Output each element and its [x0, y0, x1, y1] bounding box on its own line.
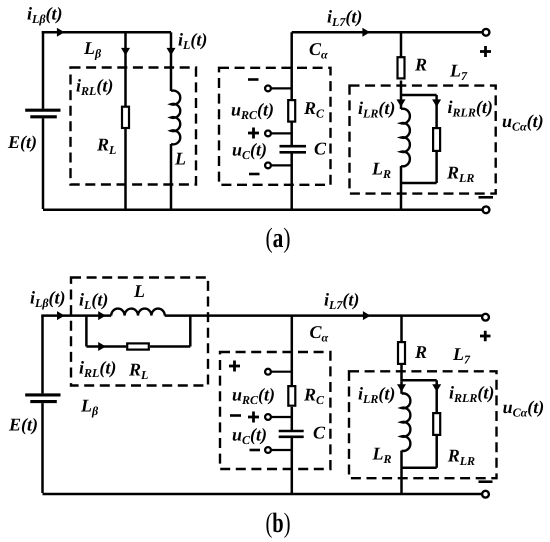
svg-text:E(t): E(t) — [7, 132, 37, 152]
svg-text:C: C — [313, 423, 326, 443]
svg-text:R: R — [414, 55, 427, 75]
svg-text:(b): (b) — [266, 508, 291, 539]
svg-text:uC(t): uC(t) — [232, 425, 267, 448]
svg-text:iL(t): iL(t) — [79, 290, 108, 313]
svg-text:E(t): E(t) — [8, 415, 38, 435]
svg-text:uC(t): uC(t) — [232, 140, 267, 163]
svg-text:L: L — [174, 149, 186, 169]
svg-text:(a): (a) — [266, 223, 291, 254]
svg-text:L: L — [133, 281, 145, 301]
svg-text:R: R — [414, 342, 427, 362]
svg-text:iL(t): iL(t) — [178, 30, 207, 53]
svg-text:C: C — [314, 139, 327, 159]
